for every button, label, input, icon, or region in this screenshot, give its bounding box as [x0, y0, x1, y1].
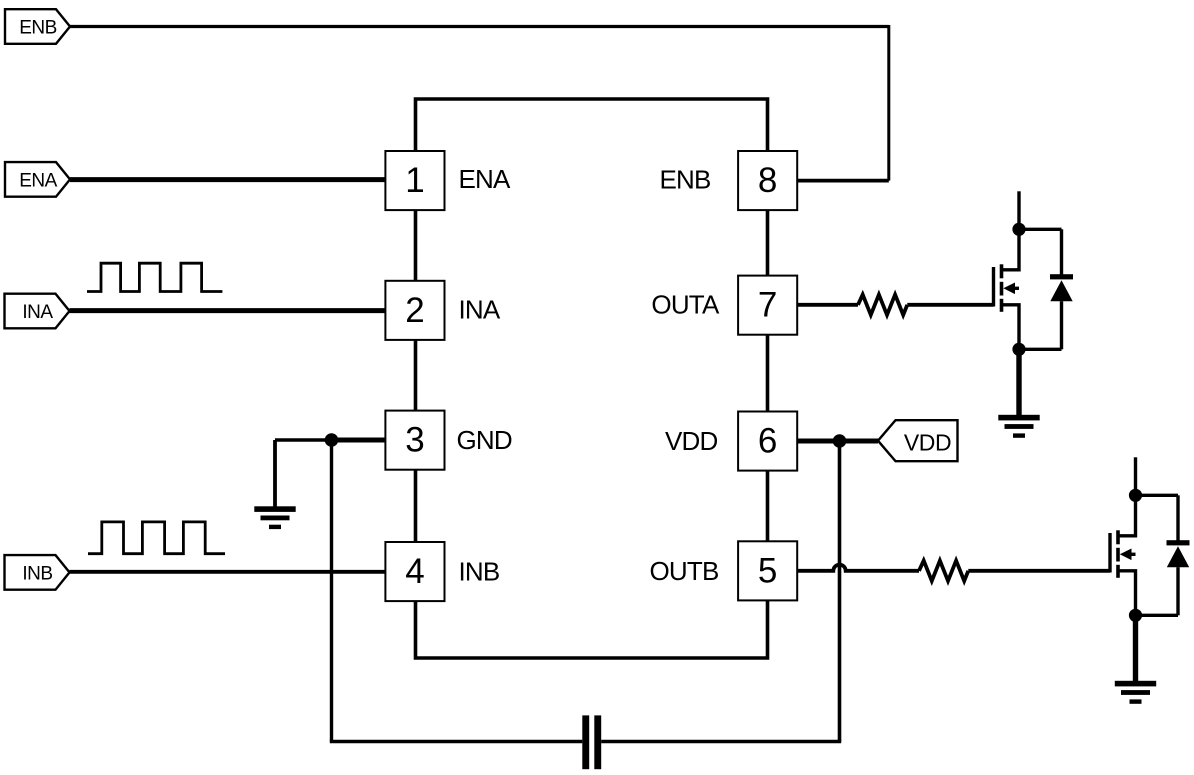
svg-text:7: 7 [758, 286, 777, 325]
Q1 body arrow [1003, 283, 1015, 295]
wire IC left spine pin3-pin4 [414, 470, 418, 542]
wire INA (flag to pin 2) [70, 308, 386, 313]
diode D2 cathode bar [1167, 540, 1190, 545]
flag INA (input flag) [5, 294, 70, 329]
svg-text:OUTB: OUTB [649, 556, 718, 586]
wire IC right spine pin7-pin6 [766, 335, 770, 412]
wire resistor R1 to Q1 gate [907, 303, 993, 307]
wire junction down to bottom rail [330, 440, 333, 742]
pin 3 box [385, 411, 444, 470]
capacitor C1 plate right [594, 715, 601, 769]
svg-text:1: 1 [405, 161, 424, 200]
svg-text:ENB: ENB [659, 165, 710, 195]
wire D1 cathode riser [1060, 229, 1063, 276]
Q1 gate bar [992, 267, 995, 307]
wire VDD riser (bottom rail up to pin 6 net) [838, 441, 842, 742]
svg-text:GND: GND [457, 425, 512, 455]
wire pin 5 to resistor R2 (with hop over VDD riser) [797, 565, 919, 571]
wire D1 anode drop [1060, 301, 1063, 349]
wire IC right spine pin8-pin7 [766, 210, 770, 276]
transistor Q1 (NMOS with body diode D1) [994, 191, 1074, 438]
Q2 drain lead [1118, 495, 1136, 536]
wire IC top edge (pin 1 to pin 8) [416, 99, 768, 151]
Q2 body arrow [1120, 549, 1132, 561]
pin 1 box [385, 151, 444, 210]
capacitor C1 plate left [582, 715, 589, 769]
svg-text:INA: INA [22, 302, 53, 323]
flag INB (input flag) [5, 555, 70, 590]
pin 4 box [385, 542, 444, 601]
flag VDD (power flag, points left) [878, 420, 958, 461]
wire bottom rail left of capacitor [330, 740, 583, 743]
ground symbol (Q2 source) [1115, 681, 1156, 704]
wire Q1 drain to diode D1 [1019, 228, 1062, 231]
node Q1 drain dot [1012, 223, 1025, 236]
node junction dot at pin 3 net [325, 433, 339, 447]
svg-text:ENB: ENB [19, 18, 57, 39]
svg-text:VDD: VDD [665, 426, 718, 456]
wire INB (flag to pin 4) [70, 570, 386, 574]
Q2 source lead [1118, 571, 1136, 616]
svg-text:5: 5 [758, 551, 777, 590]
ground symbol (left, pin 3) [254, 506, 295, 529]
Q1 drain stub up [1017, 191, 1020, 229]
svg-text:VDD: VDD [904, 429, 951, 455]
wire Q2 drain to diode D2 [1136, 494, 1179, 497]
node junction dot on VDD net [833, 434, 847, 448]
node Q2 source dot [1129, 609, 1142, 622]
flag ENB (input flag, top left) [5, 9, 70, 44]
Q1 channel segment drain-side [1000, 264, 1004, 278]
wire bottom rail right of capacitor [601, 740, 841, 743]
Q2 channel segment body-side [1116, 548, 1120, 562]
pin 7 box [738, 276, 797, 335]
flag ENA (input flag) [5, 162, 70, 197]
Q2 body lead [1127, 553, 1136, 556]
ground symbol (Q1 source) [998, 415, 1039, 438]
node Q1 source dot [1012, 343, 1025, 356]
wire IC right spine pin6-pin5 [766, 471, 770, 542]
wire Q1 source stem to ground [1016, 349, 1021, 417]
svg-text:INB: INB [22, 563, 52, 584]
wire ENA (flag to pin 1) [70, 177, 386, 182]
diode D1 cathode bar [1050, 274, 1073, 279]
wire IC bottom edge (pin 4 to pin 5) [416, 600, 768, 658]
Q1 channel segment body-side [1000, 282, 1004, 296]
wire junction to ground corner [275, 438, 332, 441]
wire ENB to pin 8 [797, 179, 889, 183]
wire D2 anode to Q2 source [1136, 614, 1179, 617]
svg-text:INB: INB [459, 556, 500, 586]
svg-text:3: 3 [405, 421, 424, 460]
pin 6 box [738, 412, 797, 471]
pin 2 box [385, 281, 444, 340]
diode D2 triangle (anode, pointing up) [1167, 546, 1189, 567]
Q1 channel segment source-side [1000, 299, 1004, 312]
wire pin 7 to resistor R1 [797, 303, 858, 307]
svg-text:2: 2 [405, 291, 424, 330]
wire D2 anode drop [1176, 567, 1179, 615]
wire D1 anode to Q1 source [1019, 348, 1062, 351]
pin 8 box [738, 151, 797, 210]
svg-text:6: 6 [758, 422, 777, 461]
wire ENB horizontal (flag to riser) [70, 25, 889, 28]
Q1 drain lead [1002, 229, 1020, 270]
svg-text:ENA: ENA [19, 170, 57, 191]
Q1 source lead [1002, 305, 1020, 350]
node Q2 drain dot [1129, 489, 1142, 502]
wire IC left spine pin1-pin2 [414, 210, 418, 281]
svg-text:ENA: ENA [459, 164, 512, 194]
waveform INA input pulse train [87, 263, 222, 291]
diode D1 triangle (anode, pointing up) [1050, 280, 1072, 301]
pin 5 box [738, 541, 797, 600]
wire Q2 source stem to ground [1133, 615, 1138, 683]
Q2 channel segment drain-side [1116, 530, 1120, 544]
resistor R1 (OUTA gate resistor) [858, 295, 907, 315]
wire ground stem (left) [273, 440, 277, 507]
Q2 channel segment source-side [1116, 565, 1120, 578]
svg-text:INA: INA [459, 295, 501, 325]
Q1 body lead [1011, 287, 1020, 290]
wire pin 3 to ground junction [332, 438, 386, 443]
Q2 drain stub up [1134, 457, 1137, 495]
resistor R2 (OUTB gate resistor) [919, 561, 968, 581]
wire D2 cathode riser [1176, 495, 1179, 542]
Q2 gate bar [1108, 533, 1111, 573]
svg-text:OUTA: OUTA [651, 289, 720, 319]
svg-text:8: 8 [758, 161, 777, 200]
wire IC left spine pin2-pin3 [414, 340, 418, 411]
transistor Q2 (NMOS with body diode D2) [1110, 457, 1190, 704]
wire resistor R2 to Q2 gate [968, 569, 1110, 573]
waveform INB input pulse train [88, 522, 225, 554]
wire pin 6 to VDD flag [797, 439, 878, 444]
wire ENB riser (down to pin 8 row) [887, 25, 890, 181]
svg-text:4: 4 [405, 552, 424, 591]
